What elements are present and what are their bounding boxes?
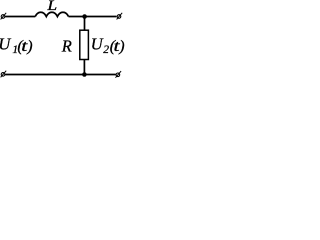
inductor L — [35, 12, 68, 16]
terminal input bottom-left — [1, 71, 7, 78]
svg-text:R: R — [61, 37, 72, 56]
node junction bottom — [82, 72, 87, 77]
terminal output top-right — [117, 13, 123, 20]
svg-text:U: U — [0, 35, 11, 54]
svg-text:): ) — [118, 38, 124, 55]
svg-text:): ) — [26, 38, 32, 55]
node junction top — [82, 14, 87, 19]
svg-text:2: 2 — [103, 44, 109, 56]
wire junction to resistor top — [84, 17, 86, 31]
wire top-left horizontal — [5, 16, 36, 18]
wire bottom rail — [5, 74, 116, 76]
svg-text:L: L — [46, 0, 57, 14]
wire top-right horizontal — [69, 16, 117, 18]
wire resistor bottom to rail — [83, 60, 85, 75]
terminal input top-left — [1, 13, 7, 20]
resistor R — [80, 30, 89, 59]
terminal output bottom-right — [116, 71, 122, 78]
svg-text:U: U — [91, 35, 104, 54]
